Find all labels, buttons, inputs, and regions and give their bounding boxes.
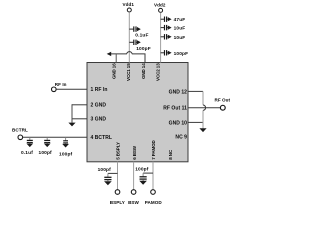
svg-text:47uF: 47uF xyxy=(174,17,186,23)
wire pin 6 BSW to terminal xyxy=(133,162,135,190)
value label 10uF xyxy=(174,26,186,32)
terminal BSW xyxy=(128,190,139,205)
ground (arrow down, right bus) xyxy=(199,128,206,132)
capacitor C3 47uF (Vdd2) xyxy=(161,17,168,22)
ground (arrow down, pins 2-3) xyxy=(68,123,75,127)
svg-text:5 BSPLY: 5 BSPLY xyxy=(116,142,121,160)
svg-text:100pf: 100pf xyxy=(59,152,73,158)
ground (arrow right, C5) xyxy=(168,35,172,39)
svg-text:RF Out 11: RF Out 11 xyxy=(163,106,187,112)
svg-text:7 PAMOD: 7 PAMOD xyxy=(151,139,156,159)
ground (arrow left, top bus) xyxy=(107,52,112,56)
op-amp U1 xyxy=(87,63,188,162)
pin 7 label PAMOD xyxy=(151,139,156,159)
svg-text:BSPLY: BSPLY xyxy=(110,200,125,205)
svg-text:RF In: RF In xyxy=(55,82,67,87)
svg-text:RF Out: RF Out xyxy=(215,98,231,103)
value label 100pf xyxy=(135,167,149,173)
ground (arrow right, C6) xyxy=(168,51,172,55)
pin 12 label GND xyxy=(169,89,188,95)
svg-text:VCC1 15: VCC1 15 xyxy=(126,63,131,81)
svg-text:6 BSW: 6 BSW xyxy=(132,145,137,160)
svg-text:100pF: 100pF xyxy=(136,46,151,52)
terminal Vdd1 xyxy=(123,2,135,12)
svg-text:GND 16: GND 16 xyxy=(112,63,117,79)
svg-text:NC 9: NC 9 xyxy=(175,134,187,140)
pin 2 label GND xyxy=(91,103,107,109)
ground (arrow down, C8) xyxy=(44,144,51,148)
svg-text:Vdd1: Vdd1 xyxy=(123,2,135,7)
pin 15 label VCC1 xyxy=(126,63,131,81)
svg-text:GND 14: GND 14 xyxy=(141,63,146,79)
svg-text:BSW: BSW xyxy=(128,200,139,205)
ground (arrow right, C4) xyxy=(168,26,172,30)
capacitor C5 10uF (Vdd2) xyxy=(161,34,168,39)
pin 4 label BCTRL xyxy=(91,135,112,141)
capacitor C4 10uF (Vdd2) xyxy=(161,25,168,30)
ground (arrow down, C7) xyxy=(26,144,33,148)
value label 0.1uF xyxy=(135,33,148,39)
value label 47uF xyxy=(174,17,186,23)
pin 10 label GND xyxy=(169,120,188,126)
svg-text:GND 10: GND 10 xyxy=(169,120,188,126)
pin 1 label RF In xyxy=(91,87,108,93)
pin 8 label NC xyxy=(168,149,173,160)
capacitor C10 100pf (BSPLY) xyxy=(104,173,111,181)
svg-text:10uF: 10uF xyxy=(174,35,186,41)
pin 14 label GND xyxy=(141,63,146,79)
svg-text:8 NC: 8 NC xyxy=(168,149,173,160)
wire right ground bus (pins 12,10) with hop over RF Out line xyxy=(188,91,206,128)
pin 16 label GND xyxy=(112,63,117,79)
ground (arrow right, C1) xyxy=(137,27,141,31)
wire top ground bus (pins 16,14) with hop over Vdd1 line xyxy=(111,52,146,63)
wire RF Out pin 11 to terminal xyxy=(188,107,220,109)
value label 100pf xyxy=(59,152,73,158)
wire Vdd2 to pin 13 VCC2 xyxy=(160,13,162,63)
pin 6 label BSW xyxy=(132,145,137,160)
capacitor C6 100pF (Vdd2) xyxy=(161,50,168,55)
capacitor C11 100pf (PAMOD) xyxy=(140,173,147,181)
svg-text:0.1uF: 0.1uF xyxy=(135,33,148,39)
capacitor C8 100pf (BCTRL) xyxy=(44,137,50,144)
value label 100pF xyxy=(174,51,189,57)
wire Vdd1 to pin 15 VCC1 xyxy=(128,12,130,62)
ground (arrow down, C10) xyxy=(104,181,112,185)
svg-text:1 RF In: 1 RF In xyxy=(91,87,108,93)
value label 100pf xyxy=(39,150,53,156)
svg-text:4 BCTRL: 4 BCTRL xyxy=(91,135,112,141)
pin 13 label VCC2 xyxy=(155,63,160,81)
terminal PAMOD xyxy=(145,190,163,205)
pin 9 label NC xyxy=(175,134,187,140)
terminal Vdd2 xyxy=(154,3,166,13)
ground (arrow down, C9) xyxy=(62,144,69,148)
wire stub to C10 xyxy=(108,172,118,174)
value label 0.1uf xyxy=(21,150,33,156)
svg-text:100pf: 100pf xyxy=(39,150,53,156)
svg-text:3 GND: 3 GND xyxy=(91,117,107,123)
svg-text:0.1uf: 0.1uf xyxy=(21,150,33,156)
svg-text:100pf: 100pf xyxy=(135,167,149,173)
capacitor C2 100pF (Vdd1) xyxy=(129,40,137,45)
wire GND pins 2,3 bracket xyxy=(72,104,87,123)
svg-text:Vdd2: Vdd2 xyxy=(154,3,166,8)
wire pin 5 BSPLY to terminal xyxy=(117,162,119,190)
value label 100pF xyxy=(136,46,151,52)
svg-text:100pF: 100pF xyxy=(174,51,189,57)
svg-text:GND 12: GND 12 xyxy=(169,89,188,95)
pin 3 label GND xyxy=(91,117,107,123)
svg-text:BCTRL: BCTRL xyxy=(12,128,28,133)
terminal BSPLY xyxy=(110,190,125,205)
svg-text:PAMOD: PAMOD xyxy=(145,200,163,205)
terminal BCTRL xyxy=(12,128,28,140)
wire RF In to pin 1 xyxy=(56,88,87,90)
wire BCTRL to pin 4 xyxy=(23,136,87,138)
value label 100pf xyxy=(98,167,112,173)
svg-text:10uF: 10uF xyxy=(174,26,186,32)
capacitor C7 0.1uf (BCTRL) xyxy=(27,137,33,144)
pin 11 label RF Out xyxy=(163,106,187,112)
svg-text:2 GND: 2 GND xyxy=(91,103,107,109)
pin 5 label BSPLY xyxy=(116,142,121,160)
ground (arrow right, C2) xyxy=(137,40,141,44)
ground (arrow down, C11) xyxy=(139,181,147,185)
svg-text:VCC2 13: VCC2 13 xyxy=(155,63,160,81)
wire stub to C11 xyxy=(143,172,153,174)
capacitor C9 100pf (BCTRL) xyxy=(63,137,68,144)
capacitor C1 0.1uF (Vdd1) xyxy=(129,26,137,31)
ground (arrow right, C3) xyxy=(168,17,172,21)
value label 10uF xyxy=(174,35,186,41)
terminal RF In xyxy=(52,82,67,92)
terminal RF Out xyxy=(215,98,231,111)
svg-text:100pf: 100pf xyxy=(98,167,112,173)
wire pin 7 PAMOD to terminal xyxy=(152,162,154,190)
